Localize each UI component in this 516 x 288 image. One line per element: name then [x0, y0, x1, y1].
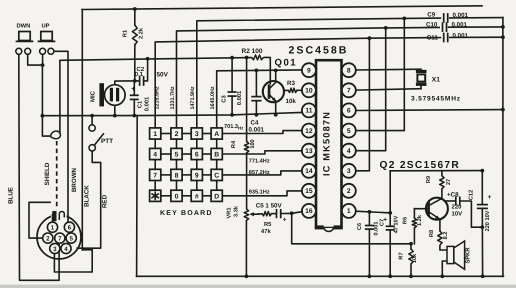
svg-text:935.1Hz: 935.1Hz: [249, 190, 270, 196]
svg-text:D: D: [214, 193, 219, 200]
wire keyboard row1 segment col3-col4: [202, 133, 211, 135]
node junction C3 bottom on common line: [230, 113, 234, 117]
pin 15 of IC U1: [302, 184, 316, 198]
node junction VR1 bottom on ground rail: [245, 274, 249, 278]
keyboard key 7: [150, 169, 161, 180]
microphone MIC element bar: [99, 83, 104, 106]
svg-text:DWN: DWN: [17, 24, 31, 30]
svg-text:5: 5: [69, 235, 73, 242]
wire top supply rail: [82, 6, 482, 10]
pin 3 of IC U1: [342, 164, 356, 178]
terminal DWN right: [25, 48, 31, 54]
svg-text:BLACK: BLACK: [83, 185, 90, 207]
svg-text:0.001: 0.001: [453, 12, 469, 19]
svg-text:UP: UP: [42, 24, 50, 30]
wire keyboard col4 segment row1-row2: [216, 139, 218, 148]
svg-text:3.579545MHz: 3.579545MHz: [411, 95, 461, 102]
svg-text:1: 1: [347, 208, 351, 215]
speaker SPKR: [447, 246, 454, 263]
wire keyboard col2 segment row1-row2: [176, 139, 178, 148]
svg-text:10k: 10k: [286, 98, 297, 105]
keyboard key #: [191, 190, 202, 201]
node junction PTT stub on common line: [90, 114, 94, 118]
svg-text:R9: R9: [426, 176, 432, 183]
svg-text:+: +: [383, 216, 387, 223]
svg-text:SPKR: SPKR: [464, 247, 471, 264]
node junction C6 bottom on rail: [368, 274, 372, 278]
svg-text:220: 220: [452, 204, 463, 211]
svg-text:2.2k: 2.2k: [138, 27, 145, 39]
node junction C6 top: [368, 210, 372, 214]
svg-text:MIC: MIC: [90, 90, 97, 102]
wire keyboard col1 segment row1-row2: [154, 139, 156, 148]
svg-text:C3: C3: [220, 95, 227, 103]
pin 7 of IC U1: [342, 83, 356, 97]
svg-text:0.001: 0.001: [452, 22, 468, 29]
wire crystal to pin 7: [356, 89, 421, 90]
svg-text:5: 5: [175, 152, 179, 159]
potentiometer VR1 3.3k: [244, 209, 248, 221]
keyboard key B: [211, 148, 222, 159]
capacitor C12 220 10V: [496, 202, 498, 204]
switch PTT: [91, 116, 93, 125]
wire mic top to junction: [115, 81, 135, 85]
svg-text:B: B: [214, 152, 219, 159]
wire bottom ground rail: [137, 275, 504, 277]
svg-text:1471.9Hz: 1471.9Hz: [190, 86, 196, 109]
svg-text:0.001: 0.001: [143, 96, 150, 111]
wire keyboard col4 segment row2-row3: [216, 160, 218, 170]
node junction mic bottom on common line: [113, 114, 117, 118]
wire keyboard row1 segment col1-col2: [161, 133, 171, 135]
node junction output line on rail: [481, 274, 485, 278]
node junction R7 bottom on rail: [409, 274, 413, 278]
node junction C4 bottom on common line: [255, 113, 259, 117]
wire drop to IC pin 4: [356, 28, 386, 151]
wire C8 to C12 node: [460, 201, 483, 227]
svg-text:6: 6: [347, 108, 351, 115]
pin 16 of IC U1: [302, 204, 316, 218]
keyboard key 6: [191, 148, 202, 159]
wire box left edge below common line: [136, 116, 139, 277]
IC U1 MK5087N body: [316, 60, 342, 227]
connector J1 pin 3: [50, 243, 60, 253]
wire shield stem to R2 feed line: [60, 59, 135, 133]
svg-text:C12: C12: [468, 190, 474, 200]
resistor R6 1.2k: [413, 209, 415, 218]
svg-text:IC MK5087N: IC MK5087N: [321, 111, 331, 176]
wire Q01 collector stub: [275, 70, 277, 82]
pin 9 of IC U1: [302, 63, 316, 77]
svg-text:8: 8: [347, 68, 351, 75]
node junction mic/R1/C1/C2: [133, 79, 137, 83]
svg-text:+: +: [488, 194, 492, 201]
svg-text:BLUE: BLUE: [8, 187, 15, 204]
wire keyboard row-2 line to pin 13: [222, 151, 302, 154]
svg-text:C: C: [214, 173, 219, 180]
terminal UP right: [48, 48, 54, 54]
svg-text:857.2Hz: 857.2Hz: [249, 170, 270, 176]
capacitor C5 1uF 50V: [276, 210, 278, 218]
keyboard key *: [150, 190, 161, 201]
wire output right edge with C12: [481, 171, 483, 205]
svg-text:#: #: [195, 193, 199, 200]
keyboard key A: [211, 128, 222, 139]
wire pin3 loop: [54, 250, 92, 272]
svg-text:10: 10: [305, 88, 313, 95]
wire Q2 collector to C8: [445, 200, 455, 202]
terminal UP left: [40, 48, 46, 54]
svg-text:X1: X1: [432, 77, 440, 84]
svg-text:KEY BOARD: KEY BOARD: [160, 210, 213, 217]
svg-text:R3: R3: [287, 80, 295, 87]
wire pin 1 line: [356, 211, 390, 213]
wire keyboard col4 segment row3-row4: [216, 181, 218, 191]
capacitor C1 0.001: [133, 81, 135, 95]
connector J1 pin 1: [47, 222, 57, 232]
svg-text:2: 2: [347, 188, 351, 195]
node junction R6/R7/input: [409, 242, 413, 246]
svg-text:4: 4: [347, 148, 351, 155]
wire Q2 emitter down: [439, 220, 441, 231]
keyboard key C: [211, 169, 222, 180]
node junction speaker return on rail: [440, 274, 444, 278]
svg-text:R5: R5: [264, 222, 272, 228]
resistor R5 47k wiper series: [259, 213, 263, 215]
resistor R4 100: [246, 58, 248, 142]
wire keyboard col2 segment row3-row4: [176, 181, 178, 191]
wire keyboard col2 segment row2-row3: [176, 160, 178, 170]
node junction C11 line to right rail: [501, 35, 505, 39]
wire keyboard row3 segment col2-col3: [182, 174, 191, 176]
wire keyboard row3 segment col3-col4: [202, 174, 211, 176]
pin 6 of IC U1: [342, 103, 356, 117]
capacitor C9: [443, 14, 445, 22]
svg-text:50V: 50V: [157, 72, 169, 79]
wire C3 top stem: [231, 58, 233, 92]
resistor R7 10k: [410, 244, 412, 249]
wire common node down to shield clamp: [42, 116, 50, 136]
pin 10 of IC U1: [302, 83, 316, 97]
node junction pin6 line on right rail: [501, 108, 505, 112]
node junction DWN/UP common: [41, 63, 45, 67]
svg-text:0.001: 0.001: [236, 90, 243, 105]
resistor R3 10k: [284, 89, 288, 91]
pin 1 of IC U1: [342, 204, 356, 218]
node junction amp box top right: [480, 169, 484, 173]
keyboard key 1: [150, 128, 161, 139]
svg-text:C9: C9: [427, 12, 435, 19]
svg-text:8.2: 8.2: [443, 232, 449, 240]
svg-text:11: 11: [305, 108, 312, 115]
terminal DWN left: [16, 48, 22, 54]
svg-text:5: 5: [347, 128, 351, 135]
pin 2 of IC U1: [342, 184, 356, 198]
wire keyboard row4 segment col2-col3: [182, 195, 191, 197]
capacitor C10: [442, 23, 444, 31]
svg-text:9: 9: [307, 68, 311, 75]
wire common line from UP/DWN node to IC pin 11: [42, 112, 302, 115]
svg-text:1645.0Hz: 1645.0Hz: [210, 86, 216, 109]
svg-text:15: 15: [305, 188, 313, 195]
svg-text:C6: C6: [357, 223, 363, 230]
svg-text:0.001: 0.001: [249, 127, 265, 134]
node junction R4 chain top: [245, 56, 249, 60]
wire R2 feed line: [135, 58, 252, 60]
node junction emitter on common line: [274, 113, 278, 117]
svg-text:10k: 10k: [411, 253, 418, 263]
capacitor C7 47uF 10V: [389, 213, 391, 226]
keyboard key 0: [171, 190, 182, 201]
svg-text:A: A: [214, 131, 219, 138]
node junction C7 bottom on rail: [388, 274, 392, 278]
wire keyboard row-3 line to pin 14: [222, 171, 302, 175]
resistor R2 100: [252, 55, 264, 60]
wire RED run from PTT to connector pin 5: [77, 151, 101, 248]
svg-text:R1: R1: [122, 30, 128, 37]
svg-text:0.001: 0.001: [373, 222, 379, 236]
svg-text:1.2k: 1.2k: [416, 214, 423, 226]
keyboard key D: [211, 190, 222, 201]
wire keyboard col1 segment row2-row3: [154, 160, 156, 170]
connector J1 pin 5: [66, 233, 76, 243]
svg-text:3: 3: [347, 168, 351, 175]
switch DWN button: [19, 32, 30, 41]
svg-text:+: +: [283, 217, 287, 224]
node junction R1 on top rail: [133, 7, 137, 11]
svg-text:47 10V: 47 10V: [394, 215, 400, 233]
switch UP button: [41, 32, 52, 41]
svg-text:4: 4: [64, 246, 68, 253]
keyboard key 9: [191, 169, 202, 180]
keyboard key 4: [150, 148, 161, 159]
wire amp box left edge to pin1 node: [389, 171, 391, 213]
svg-text:3: 3: [53, 246, 57, 253]
svg-text:C1: C1: [137, 100, 144, 108]
pin 5 of IC U1: [342, 124, 356, 138]
wire drop to IC pin 3: [356, 38, 370, 171]
svg-text:8: 8: [175, 173, 179, 180]
wire left edge (BLACK run) from top rail down: [81, 10, 83, 251]
transistor Q2 2SC1567R: [426, 198, 448, 220]
svg-text:1: 1: [153, 131, 157, 138]
svg-text:Q2 2SC1567R: Q2 2SC1567R: [380, 160, 461, 171]
capacitor C8 220 10V: [455, 197, 457, 204]
svg-text:R6: R6: [403, 217, 409, 224]
node junction C10 line to right rail: [501, 25, 505, 29]
svg-text:Q01: Q01: [275, 58, 298, 69]
wire SHIELD dashed run: [56, 141, 58, 210]
node junction common line left end: [41, 114, 45, 118]
wire keyboard col3 segment row2-row3: [196, 160, 198, 170]
svg-text:R4: R4: [231, 140, 237, 148]
resistor R1 2.2k: [134, 9, 136, 25]
pin 14 of IC U1: [302, 164, 316, 178]
capacitor C4 0.001: [255, 70, 257, 96]
svg-text:C10: C10: [426, 21, 438, 28]
svg-text:13: 13: [305, 148, 313, 155]
wire pin 6 to right rail: [356, 109, 503, 112]
node junction col1/pin3 drop: [368, 36, 372, 40]
svg-text:R8: R8: [429, 230, 435, 237]
keyboard key 5: [171, 148, 182, 159]
keyboard key 8: [171, 169, 182, 180]
capacitor C6 0.001: [368, 212, 370, 225]
wire keyboard row1 segment col2-col3: [182, 133, 191, 135]
wire keyboard column-3 feed line through C9 to right rail: [197, 18, 441, 129]
svg-text:701.3: 701.3: [224, 124, 238, 130]
node junction C5 to pin 16: [290, 211, 294, 215]
wire connector pin 1 stub: [52, 215, 54, 223]
pin 12 of IC U1: [302, 124, 316, 138]
node junction C7 top: [388, 211, 392, 215]
wire DWN-right jog: [28, 54, 43, 65]
svg-text:C4: C4: [251, 120, 259, 127]
node junction C8 to output line: [480, 225, 484, 229]
svg-text:220 10V: 220 10V: [485, 210, 491, 231]
resistor R8 8.2: [438, 231, 442, 245]
svg-text:PTT: PTT: [101, 138, 113, 145]
svg-text:RED: RED: [101, 194, 108, 208]
wire pin16 node down to amp input: [292, 213, 411, 244]
svg-text:2: 2: [46, 235, 50, 242]
svg-text:2SC458B: 2SC458B: [289, 45, 349, 57]
pin 8 of IC U1: [342, 63, 356, 77]
connector J1 pin 7: [55, 233, 65, 243]
wire right vertical rail: [502, 18, 504, 277]
node junction collector on pin9 line: [274, 69, 278, 73]
svg-text:Hz: Hz: [238, 125, 244, 130]
svg-text:0.1: 0.1: [135, 71, 144, 78]
wire keyboard row2 segment col1-col2: [161, 153, 171, 155]
connector J1 shell: [37, 215, 81, 259]
wire keyboard row2 segment col3-col4: [202, 153, 211, 155]
connector J1 pin 2: [43, 233, 53, 243]
svg-text:771.4Hz: 771.4Hz: [249, 159, 270, 165]
svg-text:1331.7Hz: 1331.7Hz: [170, 86, 176, 109]
keyboard key 3: [191, 128, 202, 139]
svg-text:0: 0: [175, 193, 179, 200]
svg-text:16: 16: [305, 208, 313, 215]
pin 11 of IC U1: [302, 103, 316, 117]
connector J1 pin 6: [64, 222, 74, 232]
pin 4 of IC U1: [342, 144, 356, 158]
pin 13 of IC U1: [302, 144, 316, 158]
wire keyboard column-1 feed line through C11 to right rail: [155, 38, 441, 129]
wire pin 8 to crystal: [356, 68, 421, 71]
svg-text:7: 7: [58, 235, 62, 242]
svg-text:12: 12: [305, 128, 313, 135]
wire keyboard row2 segment col2-col3: [182, 153, 191, 155]
wire amp box top edge: [390, 170, 482, 172]
svg-text:C5 1 50V: C5 1 50V: [256, 202, 283, 209]
connector J1 key tab: [52, 211, 56, 221]
wire mic bottom stub: [114, 105, 116, 115]
resistor R9 27: [441, 171, 443, 176]
svg-text:BROWN: BROWN: [71, 167, 78, 192]
svg-text:9: 9: [195, 173, 199, 180]
svg-text:1215.9Hz: 1215.9Hz: [155, 86, 161, 109]
svg-text:SHIELD: SHIELD: [44, 162, 51, 185]
node junction col2/pin4 drop: [384, 26, 388, 30]
svg-text:R2 100: R2 100: [242, 48, 263, 55]
svg-text:3.3k: 3.3k: [233, 205, 240, 217]
svg-text:0.001: 0.001: [453, 33, 469, 40]
keyboard key 2: [171, 128, 182, 139]
capacitor C11: [443, 34, 445, 42]
svg-text:7: 7: [153, 173, 157, 180]
wire UP-left down to common line: [42, 54, 44, 65]
svg-text:3: 3: [195, 131, 199, 138]
svg-text:6: 6: [68, 225, 72, 232]
svg-text:2: 2: [175, 131, 179, 138]
svg-text:VR1: VR1: [227, 208, 233, 219]
connector J1 pin 4: [61, 243, 71, 253]
capacitor C2 0.1 50V: [135, 80, 139, 82]
wire keyboard col1 segment row3-row4: [154, 181, 156, 191]
wire keyboard row4 segment col1-col2: [161, 195, 171, 197]
wire BLUE run from DWN-left to connector pin 7: [19, 54, 59, 280]
shield clamp: [51, 131, 61, 139]
node junction C3 top: [230, 56, 234, 60]
wire keyboard col3 segment row3-row4: [196, 181, 198, 191]
svg-text:27: 27: [446, 179, 452, 185]
node junction C2 to R2 line: [146, 57, 150, 61]
svg-text:7: 7: [347, 88, 351, 95]
wire drop to IC pin 5: [356, 18, 404, 130]
wire keyboard row3 segment col1-col2: [161, 174, 171, 176]
wire keyboard col3 segment row1-row2: [196, 139, 198, 148]
svg-text:C11: C11: [427, 35, 439, 42]
microphone MIC body: [105, 85, 126, 106]
svg-text:100: 100: [250, 139, 256, 148]
wire pin2 loop to key tab: [29, 202, 51, 238]
wire BROWN run from UP-right to connector pin 6: [54, 51, 68, 222]
svg-text:6: 6: [195, 152, 199, 159]
crystal X1 3.579545MHz: [416, 70, 427, 73]
node junction col3/pin5 drop: [402, 17, 406, 21]
wire keyboard row-1 line to pin 12: [222, 131, 302, 134]
capacitor C3 0.001: [228, 91, 235, 93]
wire keyboard row-4 line to pin 15: [222, 191, 302, 196]
svg-text:14: 14: [305, 168, 313, 175]
node junction C1 bottom on common line: [132, 114, 136, 118]
svg-text:10V: 10V: [452, 210, 463, 217]
wire keyboard row4 segment col3-col4: [202, 195, 211, 197]
wire keyboard column-4 line to Q01 collector / pin 9: [217, 70, 302, 129]
wire keyboard column-2 feed line through C10 to right rail: [177, 27, 441, 128]
wire junction to pin 16: [292, 212, 302, 214]
svg-text:+C8: +C8: [447, 192, 459, 199]
wire Q2 base from R6: [414, 208, 427, 210]
wire Q01 emitter stub: [275, 101, 277, 114]
wire BLACK lower jog: [82, 249, 92, 251]
svg-text:4: 4: [153, 152, 157, 159]
node junction C4 top on pin9 line: [255, 69, 259, 73]
svg-text:1: 1: [51, 225, 55, 232]
svg-text:R7: R7: [399, 252, 405, 259]
svg-text:47k: 47k: [261, 228, 271, 235]
transistor Q01 2SC458B: [263, 81, 284, 102]
